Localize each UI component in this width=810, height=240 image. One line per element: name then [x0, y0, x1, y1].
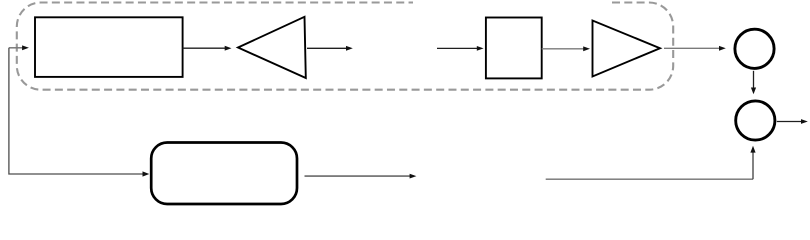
- wire node N1 to node N2: [751, 71, 756, 95]
- block U3 (rounded rectangle): [151, 143, 297, 205]
- wire rectangle to amplifier A1: [183, 46, 232, 51]
- node N2 (circle): [736, 101, 775, 140]
- wire into square block: [437, 46, 484, 51]
- block U1 (rectangle): [35, 17, 183, 77]
- input arrow: [9, 45, 29, 50]
- wire from amplifier A1: [307, 46, 353, 51]
- wire amplifier A2 to summing node N1: [664, 46, 726, 51]
- wire from rounded block: [305, 174, 417, 179]
- feedback wire right (into node N2 from below): [546, 146, 756, 179]
- node N1 (circle): [735, 29, 774, 68]
- feedback wire left (down to rounded block): [9, 48, 149, 177]
- amplifier A1 (left-pointing triangle): [238, 17, 306, 78]
- dashed enclosure boundary: [17, 3, 673, 90]
- wire square to amplifier A2: [542, 46, 590, 51]
- block U2 (square): [486, 18, 542, 79]
- output arrow: [777, 119, 808, 124]
- amplifier A2 (right-pointing triangle): [593, 21, 661, 77]
